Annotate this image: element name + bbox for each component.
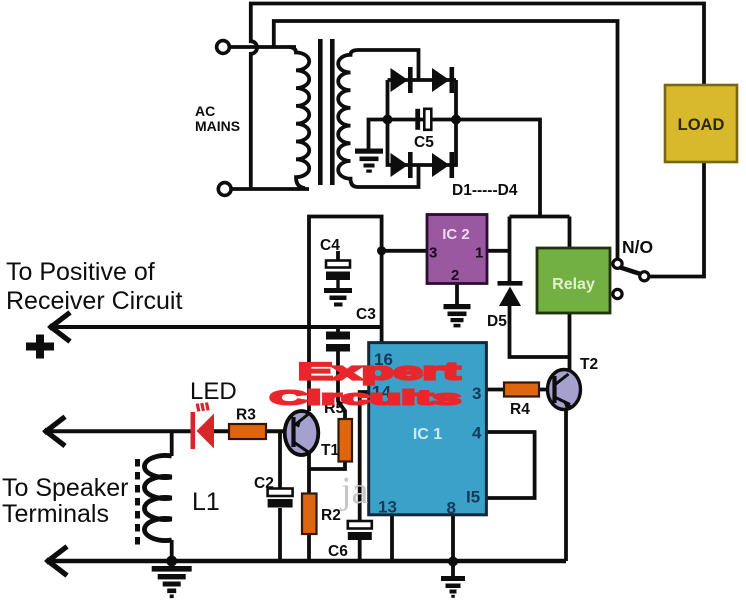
svg-text:I5: I5: [466, 488, 480, 507]
svg-text:IC 1: IC 1: [413, 426, 442, 443]
svg-text:R2: R2: [321, 507, 341, 524]
svg-text:8: 8: [447, 499, 456, 518]
svg-text:R3: R3: [236, 407, 256, 424]
svg-text:T2: T2: [580, 356, 598, 373]
svg-text:D1-----D4: D1-----D4: [452, 182, 518, 199]
svg-text:2: 2: [451, 267, 459, 284]
svg-text:L1: L1: [192, 488, 220, 516]
svg-text:IC 2: IC 2: [442, 226, 470, 243]
svg-text:Terminals: Terminals: [2, 500, 109, 528]
svg-text:N/O: N/O: [622, 237, 653, 257]
svg-text:C2: C2: [254, 475, 274, 492]
svg-text:R4: R4: [510, 401, 530, 418]
svg-text:C4: C4: [320, 237, 340, 254]
svg-text:T1: T1: [321, 442, 339, 459]
svg-text:Expert: Expert: [298, 357, 461, 385]
svg-text:4: 4: [472, 424, 482, 443]
svg-text:To Positive of: To Positive of: [6, 258, 155, 286]
svg-text:D5: D5: [487, 313, 507, 330]
svg-text:AC: AC: [195, 103, 215, 119]
svg-text:3: 3: [472, 384, 481, 403]
svg-text:Receiver Circuit: Receiver Circuit: [6, 287, 182, 315]
svg-text:1: 1: [475, 245, 483, 262]
svg-text:LOAD: LOAD: [678, 116, 725, 134]
svg-text:MAINS: MAINS: [195, 118, 240, 134]
svg-text:ja: ja: [339, 470, 369, 512]
svg-text:C3: C3: [356, 306, 376, 323]
svg-text:LED: LED: [190, 378, 237, 405]
svg-text:C6: C6: [328, 543, 348, 560]
svg-text:13: 13: [378, 498, 397, 517]
svg-text:Relay: Relay: [552, 276, 595, 293]
svg-text:To Speaker: To Speaker: [2, 474, 128, 502]
svg-text:Circuits: Circuits: [270, 387, 462, 410]
svg-text:C5: C5: [414, 134, 434, 151]
svg-text:3: 3: [429, 245, 437, 262]
